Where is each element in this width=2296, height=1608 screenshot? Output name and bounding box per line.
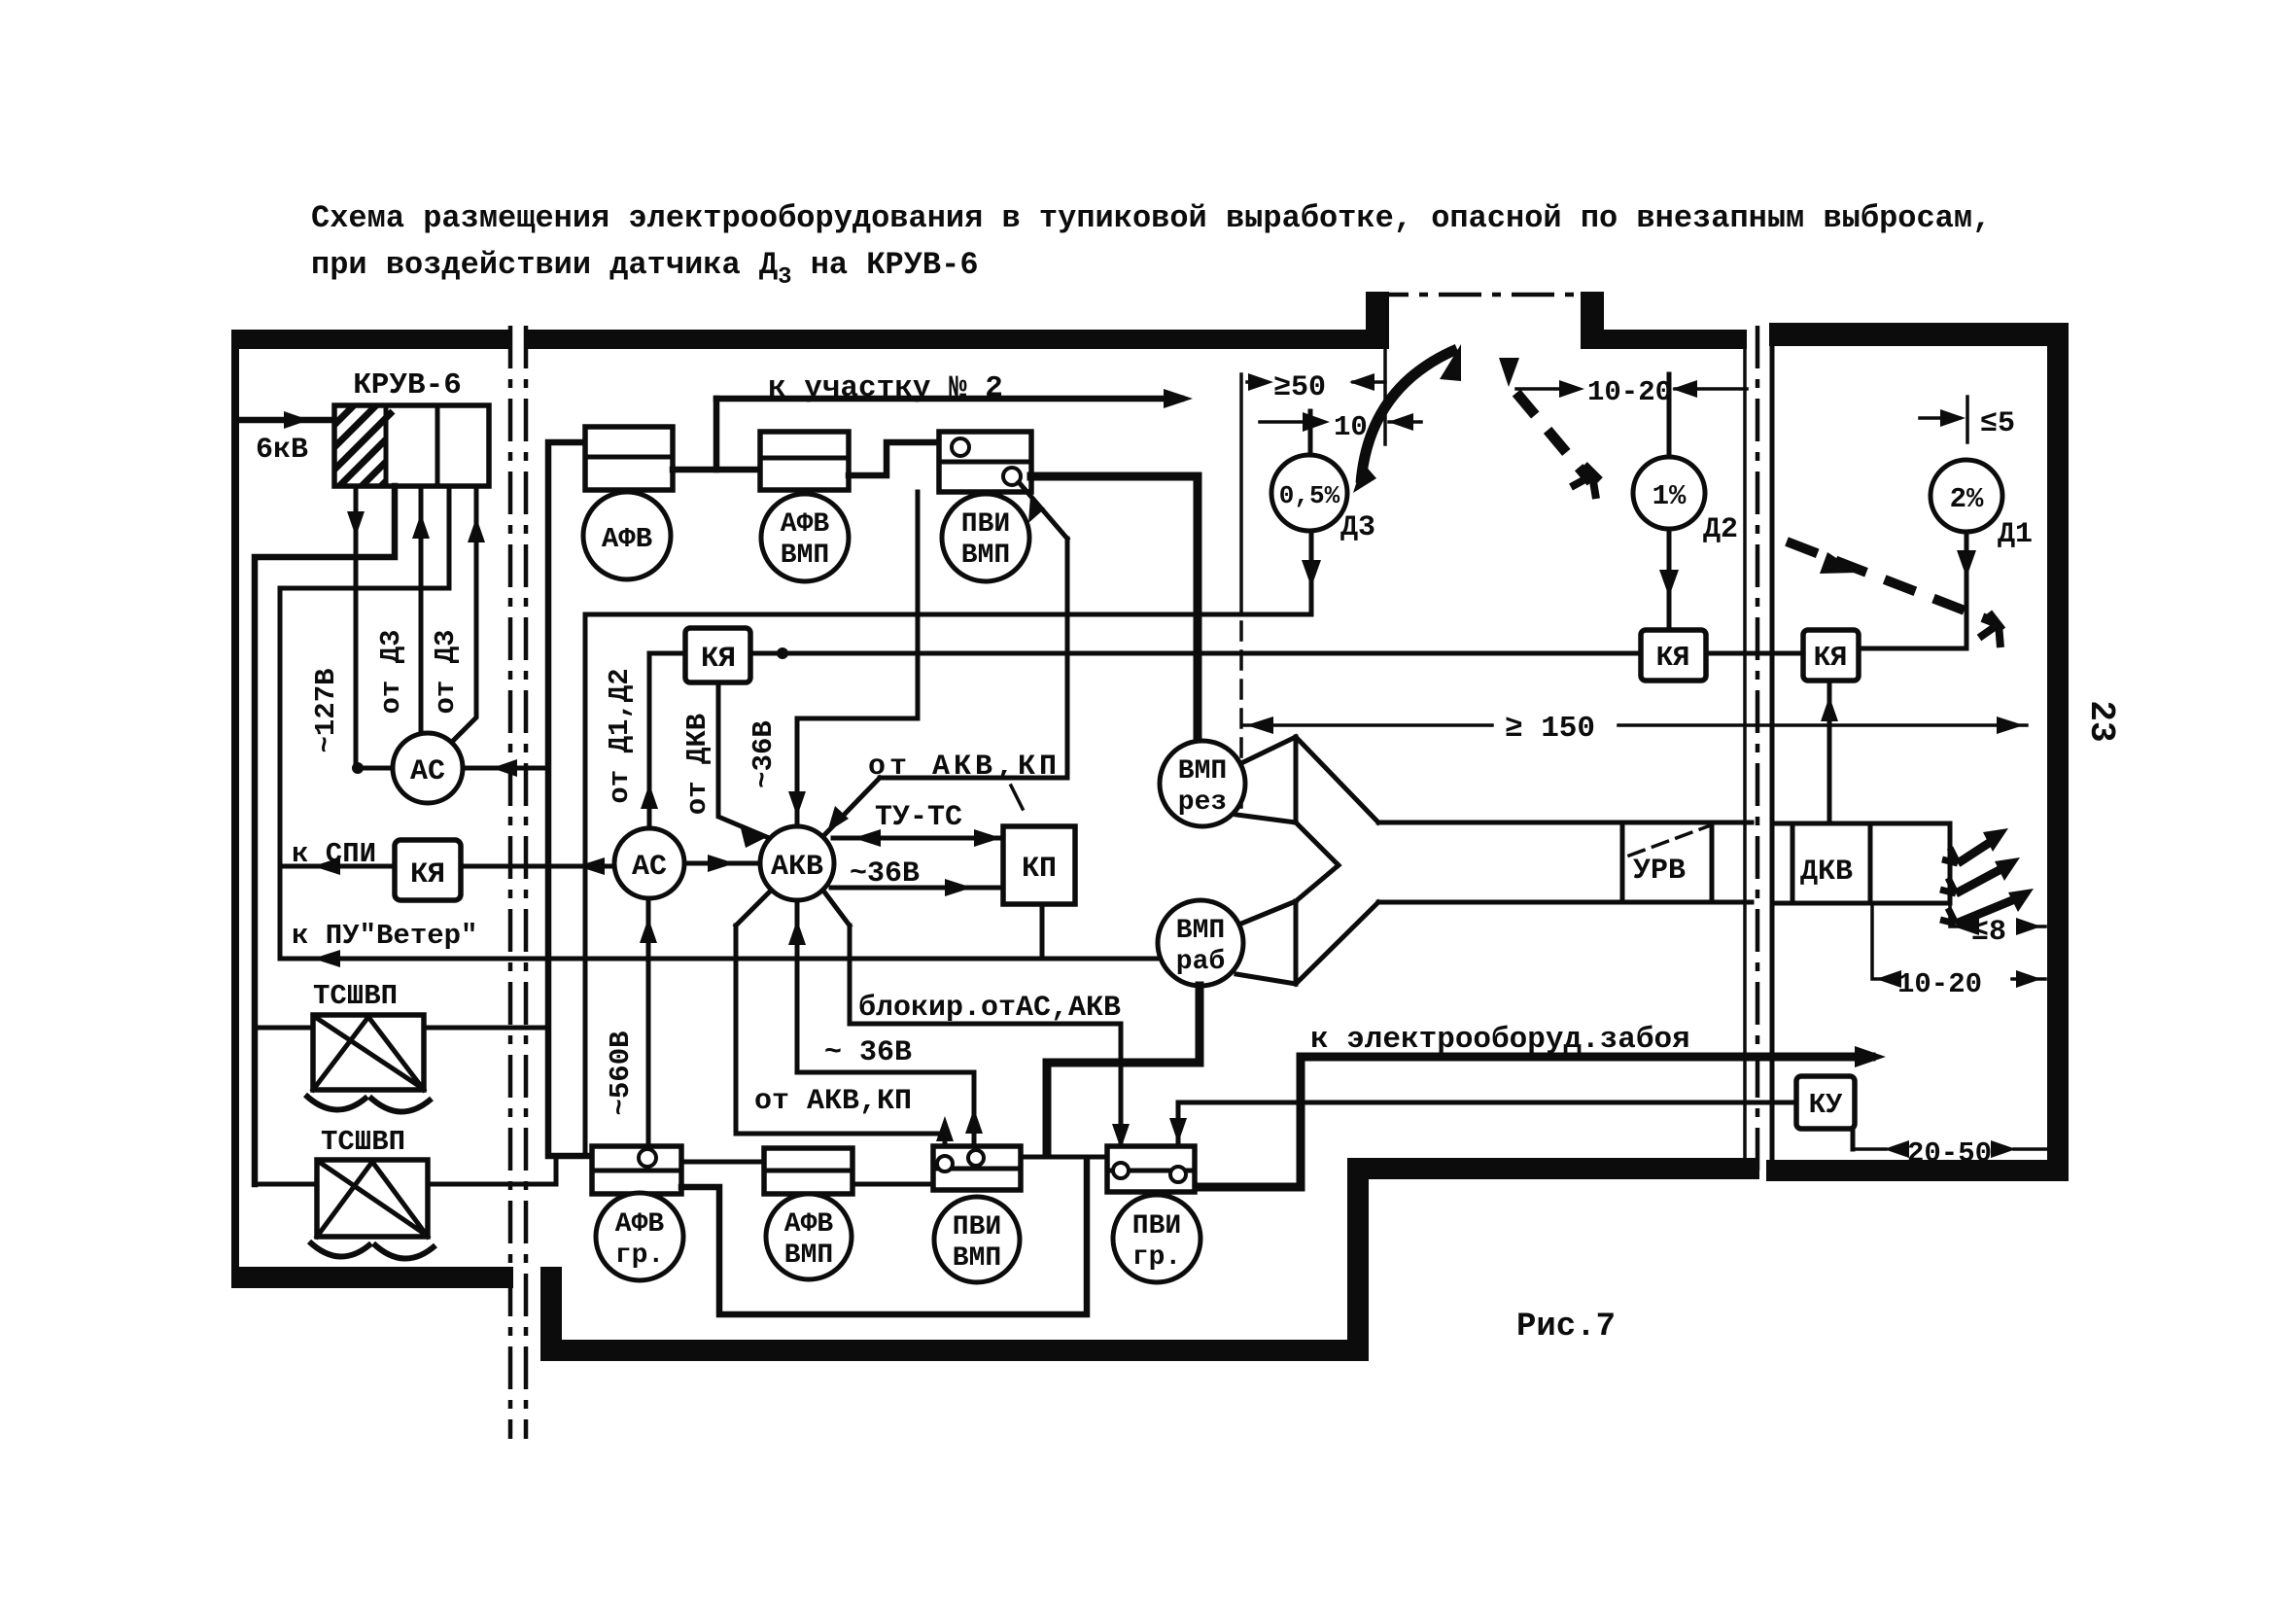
svg-text:от АКВ,КП: от АКВ,КП [868,751,1061,784]
wire к участку № 2 [716,396,1181,402]
wire thick ПВИ ВМП to ВМП рез [1031,476,1198,744]
svg-text:ПВИ: ПВИ [961,509,1010,540]
wire АФВ гр to АФВ ВМП [681,1160,764,1165]
svg-text:блокир.отАС,АКВ: блокир.отАС,АКВ [858,992,1121,1025]
duct inner edge line [1383,349,1387,444]
wire к СПИ [280,864,395,869]
starter box ПВИ ВМП [939,432,1031,492]
svg-text:ПВИ: ПВИ [953,1212,1001,1242]
svg-text:ВМП: ВМП [1176,916,1225,946]
svg-text:АФВ: АФВ [784,1209,834,1240]
duct right section edges [1775,823,1950,903]
wall: middle bottom step left [540,1267,562,1361]
fuse box АФВ ВМП (bottom) [764,1148,852,1194]
apparatus АКВ [760,826,834,900]
svg-text:1%: 1% [1652,480,1687,512]
dimension ≤8 [1950,903,2045,926]
arrow on 6kV wire [284,411,309,429]
svg-text:6кВ: 6кВ [256,434,308,467]
wire КЯ to АС middle [461,864,614,869]
wire feed to АФВ group (long vertical) [548,442,592,1156]
svg-text:КЯ: КЯ [1814,642,1848,674]
transformer ТСШВП upper [313,1015,424,1090]
wire КП bottom to bus [1040,904,1045,959]
svg-text:ВМП: ВМП [1178,756,1227,787]
wire Д2 to КЯ [1667,529,1672,630]
box КП [1003,826,1075,904]
svg-text:~ 36В: ~ 36В [824,1036,912,1069]
svg-text:от Д3: от Д3 [375,629,407,714]
svg-text:≥50: ≥50 [1273,371,1326,404]
svg-text:10-20: 10-20 [1587,376,1672,408]
arrow on ~36В wire [945,879,972,896]
svg-text:20-50: 20-50 [1907,1137,1992,1170]
wall: middle section bottom bar lower level [540,1340,1369,1361]
contact on АФВ гр box [639,1149,656,1167]
arrow into АКВ upper right [827,806,849,832]
svg-text:≤5: ≤5 [1980,407,2015,440]
wire ~36В from АКВ to ПВИ ВМП bottom [797,900,974,1151]
sensor Д1 (2%) [1931,460,2002,532]
arrow on right dashed line [1820,552,1859,574]
wire КЯ bus to right sensors [750,651,1641,656]
starter ПВИ ВМП circle [942,494,1029,581]
arrow down Д2 [1659,570,1679,597]
wire АФВ to branch [673,467,760,473]
wall: middle section top bar (right of duct opening) [1604,330,1747,349]
svg-text:Д3: Д3 [1340,511,1375,544]
wall: duct jamb left [1366,292,1389,349]
wall: right section top bar [1769,323,2069,346]
svg-text:~560В: ~560В [605,1031,637,1115]
УРВ cell dividers [1622,822,1712,902]
svg-text:от Д3: от Д3 [430,629,462,714]
switchgear КРУВ-6 block [334,405,489,486]
wire АФВ ВМП to ПВИ ВМП [849,442,939,475]
dimension ≥50 [1247,380,1385,384]
fan cone ВМП рез [1236,737,1296,822]
breaker АФВ гр circle [596,1193,683,1280]
svg-text:от Д1,Д2: от Д1,Д2 [604,668,636,803]
svg-text:≥ 150: ≥ 150 [1505,712,1595,746]
arrow up on от Д3 second wire [468,517,485,542]
bird foot at dashed end [1571,465,1600,499]
wall: right section right wall [2047,323,2069,1181]
wire от Д3 (first) [419,486,424,733]
wall: middle section top bar (left of duct opening) [525,330,1369,349]
fan cone ВМП раб [1236,901,1296,984]
svg-text:АФВ: АФВ [781,509,830,540]
wire АС to АКВ [684,861,760,866]
fuse box АФВ гр [592,1146,681,1194]
svg-text:КП: КП [1022,853,1057,886]
wire к электрооборуд.забоя [1195,1057,1871,1187]
svg-text:Д1: Д1 [1998,518,2033,551]
transformer ТСШВП lower [317,1160,428,1237]
dashed diag across УРВ [1629,826,1708,856]
wire АФВ ВМП to ПВИ ВМП (bottom) [852,1182,933,1187]
thin wall: middle section right end [1743,349,1747,1158]
dimension ≤5 [1920,397,1967,442]
junction dot on КЯ bus [777,647,788,659]
wire second supply horizontal [280,486,449,959]
box КУ [1796,1076,1855,1129]
svg-text:2%: 2% [1950,483,1984,515]
starter ПВИ ВМП circle (bottom) [934,1197,1020,1282]
wire riser к участку [713,399,720,470]
svg-text:Рис.7: Рис.7 [1516,1309,1616,1346]
wire ВМП раб feed [1047,986,1200,1155]
chain line between left box and middle section (inner) [524,326,529,1439]
wall: middle section bottom bar upper level [1347,1158,1759,1179]
svg-text:гр.: гр. [1132,1242,1181,1273]
arrow up от Д1,Д2 [641,784,658,809]
wire блокир.от АС,АКВ [823,891,1121,1163]
svg-text:≤8: ≤8 [1971,916,2006,949]
svg-text:к участку № 2: к участку № 2 [768,371,1003,405]
arrow left on ТУ-ТС [853,829,881,847]
svg-text:ТСШВП: ТСШВП [321,1126,405,1158]
tick to wire [1011,786,1023,809]
chain line between left box and middle section (outer) [508,326,513,1439]
junction box КЯ (sensor Д1) [1803,630,1859,681]
starter box ПВИ гр [1107,1146,1195,1192]
wire АКВ to КП ~36В [831,886,1003,891]
bird foot right dashed [1979,612,2002,647]
svg-text:ВМП: ВМП [961,541,1010,571]
svg-text:АС: АС [632,851,667,884]
dashed leakage line right section [1787,542,1995,622]
wall: left box bottom bar [231,1267,513,1288]
svg-text:10: 10 [1334,411,1368,443]
breaker АФВ circle [583,492,671,579]
apparatus АС (left box) [393,733,463,803]
wire Д1 to КЯ [1859,531,1966,648]
junction box КЯ (left) [395,840,461,900]
svg-text:~36В: ~36В [850,857,920,891]
svg-text:КЯ: КЯ [701,643,736,676]
breaker АФВ ВМП circle (bottom) [766,1194,852,1279]
wall: duct jamb right [1581,292,1604,349]
contacts on ПВИ гр box [1113,1163,1129,1178]
junction box КЯ (sensor Д2) [1641,630,1706,681]
svg-text:Схема размещения электрооборуд: Схема размещения электрооборудования в т… [311,200,1991,236]
dimension ≥150 [1243,723,2027,727]
arrow right on ТУ-ТС [974,829,1001,847]
wire КЯ(Д1) down to ДКВ [1827,681,1832,823]
breaker АФВ ВМП circle [761,494,849,581]
arrow АС to АКВ [708,855,735,872]
wire ТСШВП upper right tap [424,1026,548,1031]
contacts on ПВИ ВМП box [937,1156,953,1171]
wire КЯ to КЯ right [1706,651,1803,656]
wire ПВИ ВМП bottom to АКВ (~36В) [797,492,918,826]
wire feeder down from bus [583,614,588,1155]
arrow up into duct on arc [1440,344,1461,381]
wire ТСШВП lower left tap [255,1182,317,1187]
wire thick АФВ гр to bottom bus [681,1159,1087,1314]
dimension 10 [1260,420,1421,424]
bus from Д3 to left (to АС feeder) [585,612,1311,617]
wall: right section bottom bar [1766,1160,2069,1181]
svg-text:0,5%: 0,5% [1279,481,1340,510]
svg-text:раб: раб [1176,947,1225,977]
wall: middle bottom step right [1347,1158,1369,1361]
svg-text:рез: рез [1178,787,1227,818]
svg-text:ТУ-ТС: ТУ-ТС [875,801,962,834]
arrow down on ~127В wire [347,511,365,537]
arrow down into АКВ [788,791,806,817]
arrow к СПИ [313,857,340,875]
arrow down on Д1 wire [1957,550,1976,577]
svg-text:АФВ: АФВ [602,523,652,555]
svg-text:к электрооборуд.забоя: к электрооборуд.забоя [1310,1023,1690,1057]
arrow к ПУ [313,950,340,967]
junction dot [352,762,364,774]
sensor Д2 (1%) [1633,457,1705,529]
arrow up on АКВ bottom wire [788,920,806,945]
starter ПВИ гр circle [1113,1195,1200,1282]
chain line across duct opening top [1366,293,1604,297]
wire от АКВ,КП lower [736,891,945,1157]
wire ПВИ ВМП to ПВИ гр [1021,1155,1107,1160]
svg-text:гр.: гр. [615,1241,664,1271]
wire to КУ [1178,1102,1796,1163]
svg-text:ТСШВП: ТСШВП [313,980,398,1012]
arrow up on от Д3 wire [412,513,430,539]
junction box КЯ (middle) [685,628,750,682]
svg-text:ВМП: ВМП [953,1243,1001,1274]
fuse box АФВ [585,427,673,490]
dimension 10-20 top [1516,387,1747,391]
wire bus к ПУ Ветер [280,957,1163,961]
arrow down блокир [1112,1124,1130,1149]
wire 6kV input [239,417,334,424]
svg-text:~127В: ~127В [310,668,342,752]
duct outlet arrows [1956,838,2022,924]
dimension 10-20 lower right [1872,903,2045,979]
leakage dashed flow [1516,393,1591,482]
svg-text:АФВ: АФВ [615,1209,665,1240]
wire Д3 output to bus [1309,531,1314,614]
arrow left into АС [492,759,517,777]
svg-text:УРВ: УРВ [1633,855,1686,888]
arrow up on КЯ-ДКВ wire [1821,696,1838,721]
svg-text:КРУВ-6: КРУВ-6 [353,368,462,402]
svg-text:Д2: Д2 [1703,513,1738,546]
fan ВМП рез [1160,741,1245,826]
svg-text:ВМП: ВМП [781,541,829,571]
wire АС right stub [463,766,546,771]
wire от Д1,Д2 into АС [649,653,685,828]
svg-text:ДКВ: ДКВ [1800,856,1853,889]
duct top edge [1378,821,1752,825]
wall: left box top bar [231,330,510,349]
sensor Д3 drop wire [1308,411,1313,455]
svg-text:от АКВ,КП: от АКВ,КП [754,1085,912,1118]
arrow down at dashed top [1499,358,1519,387]
starter box ПВИ ВМП (bottom) [933,1146,1021,1190]
svg-text:АС: АС [410,755,445,788]
svg-text:ВМП: ВМП [784,1241,833,1271]
svg-text:ПВИ: ПВИ [1132,1211,1181,1241]
contact circle lower [1003,468,1021,485]
thin wall: right section left wall [1770,346,1775,1160]
dimension 20-50 [1853,1147,2047,1151]
wire 127V supply horizontal [255,486,395,1184]
wire ~560В from АС to АФВ гр [646,898,651,1148]
svg-text:КЯ: КЯ [410,858,445,891]
svg-text:10-20: 10-20 [1897,968,1982,1000]
svg-text:23: 23 [2081,700,2121,742]
arrow к электрооборуд [1855,1046,1886,1067]
sensor Д2 drop wire [1667,374,1672,457]
arrow toward contact [1028,496,1045,523]
wire КУ bottom [1851,1129,1856,1149]
wire от ДКВ into АКВ [718,682,769,838]
chain line between middle and right sections [1756,326,1760,1176]
fan ВМП раб [1158,900,1243,986]
wire ТУ-ТС [833,836,1003,841]
arrow к участку [1164,389,1193,408]
fuse box АФВ ВМП [760,432,849,490]
svg-text:КУ: КУ [1809,1089,1843,1121]
arrow at arc lower end [1353,463,1376,493]
hatch of КРУВ-6 cell [334,405,393,486]
sensor Д3 (0,5%) [1271,455,1347,531]
wire от Д3 (second) [453,486,476,741]
duct bottom edge [1378,900,1752,905]
arrow от ДКВ [741,828,767,848]
arrow down to ПВИ гр contact [1169,1118,1187,1143]
apparatus АС (middle) [614,828,684,898]
svg-text:к ПУ"Ветер": к ПУ"Ветер" [292,920,477,952]
svg-text:КЯ: КЯ [1656,642,1690,674]
svg-text:~36В: ~36В [748,720,780,788]
svg-text:от ДКВ: от ДКВ [681,714,713,815]
arrow up near contact [936,1116,954,1141]
arrow up ~560В [640,918,657,943]
arrow down on Д3 wire [1302,560,1321,587]
wire ТСШВП lower right tap [428,1156,556,1184]
wall: left box left wall [231,330,239,1288]
arrow up near ПВИ ВМП [965,1108,983,1134]
svg-text:АКВ: АКВ [771,851,823,884]
wire from contact to АКВ (от АКВ,КП upper) [825,482,1067,834]
arrow on wire to АС [577,857,605,875]
duct Y merge [1296,737,1378,984]
contact circle upper [952,438,969,456]
wire ~127В from КРУВ-6 down [356,486,393,768]
reference line for dimensions [1239,374,1243,614]
wire ТСШВП upper left tap [255,1026,313,1031]
air flow arc into duct [1361,349,1457,483]
